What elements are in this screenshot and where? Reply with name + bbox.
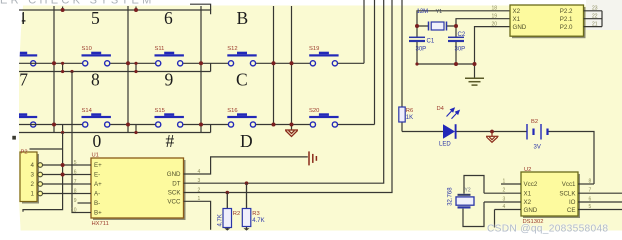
wire: P2 pin1 to A- [43,193,78,195]
svg-text:LED: LED [439,141,451,147]
svg-text:A-: A- [94,191,100,198]
svg-text:4.7K: 4.7K [252,218,264,224]
svg-text:30P: 30P [416,46,427,52]
svg-text:P2.0: P2.0 [560,24,573,31]
svg-text:Y1: Y1 [436,9,443,15]
svg-text:6: 6 [589,197,592,203]
svg-text:10: 10 [71,208,77,214]
ground arrow keypad (red) [285,130,298,137]
svg-text:8: 8 [91,70,100,90]
svg-text:4: 4 [31,162,35,169]
svg-text:X2: X2 [524,199,532,206]
switch S19 [309,46,339,66]
wire: U1 DT to riser [184,0,384,183]
svg-text:30P: 30P [455,46,466,52]
svg-text:8: 8 [74,189,77,195]
svg-text:#: # [166,131,175,151]
pin stubs U2 left [484,184,521,228]
svg-text:6: 6 [164,8,173,28]
wire: Y2 top to X1 [464,176,484,194]
ground arrow (battery rail) [486,132,499,143]
svg-text:0: 0 [93,131,102,151]
pin numbers U1 left [71,160,77,214]
svg-text:7: 7 [74,179,77,185]
svg-text:3V: 3V [534,145,541,151]
svg-text:19: 19 [491,13,497,19]
wire: row0 wire fragment [190,4,211,10]
svg-text:22: 22 [592,13,598,19]
wire: cap ground rail [417,63,475,65]
svg-text:E+: E+ [94,162,102,169]
resistor R2 [218,193,241,231]
svg-text:S20: S20 [309,108,319,114]
wire: column line 3 [200,6,202,133]
switch S10 [82,46,111,66]
svg-text:HX711: HX711 [92,221,109,227]
svg-text:Vcc1: Vcc1 [562,181,576,188]
svg-text:3: 3 [503,197,506,203]
capacitor C2 [448,32,466,52]
wire: row1 wire segments [19,62,364,64]
KEYPAD SECTION [19,0,375,133]
svg-text:GND: GND [513,24,527,31]
wire: column line 2 [127,6,129,133]
svg-text:X1: X1 [524,190,532,197]
svg-text:GND: GND [524,207,538,214]
node: crystal junctions [415,24,477,66]
svg-text:7: 7 [589,188,592,194]
svg-text:2: 2 [503,188,506,194]
resistor R6 [399,0,413,132]
svg-text:S10: S10 [82,46,92,52]
switch S15 [155,108,184,127]
svg-text:12M: 12M [417,9,429,15]
svg-text:1: 1 [31,191,35,198]
wire: bus C to connector P2 riser [23,133,63,212]
ground (sideways, red) [309,151,316,165]
svg-text:4: 4 [503,204,506,210]
pin numbers U2 right [589,179,592,211]
wire: row2 wire segments [19,124,375,126]
wire: P2 pin2 to A+ [43,183,78,185]
svg-text:CE: CE [567,207,576,214]
svg-text:8: 8 [589,179,592,185]
svg-text:S14: S14 [82,108,93,114]
wire: column line 4b to ground [291,6,293,130]
wire: crystal Y1 stubs [417,25,456,27]
svg-text:P2.2: P2.2 [560,8,573,15]
switch S20 [309,108,339,127]
svg-text:R6: R6 [406,108,413,114]
svg-text:B: B [237,8,249,28]
svg-text:9: 9 [165,70,174,90]
svg-text:C2: C2 [458,32,466,38]
switch S16 [227,108,256,127]
wire: row bus B [19,71,211,73]
wire: stub row0-busA x136 [135,7,137,11]
key label remnant row3 col1 [12,136,16,140]
wire: LED rail [402,132,594,185]
ground (3-bar) [465,78,484,85]
pin numbers MCU right [592,6,598,28]
svg-text:X1: X1 [513,16,521,23]
wire: S20 riser [374,0,376,125]
svg-text:B+: B+ [94,210,102,217]
svg-text:D4: D4 [437,106,445,112]
pin numbers U1 right [198,169,201,202]
svg-text:S15: S15 [155,108,165,114]
svg-text:1: 1 [503,179,506,185]
switch S14 [82,108,111,127]
svg-text:18: 18 [491,6,497,12]
svg-text:4.7K: 4.7K [218,214,224,226]
pin stubs MCU right [584,11,603,27]
svg-text:U2: U2 [524,167,531,173]
switch S13 row2 col1 (cut by margin) [8,113,37,127]
svg-text:S12: S12 [227,46,237,52]
svg-text:P2.1: P2.1 [560,16,573,23]
wire: S19 riser [363,0,365,63]
connector P2 [20,149,43,203]
svg-text:SCLK: SCLK [559,190,576,197]
switch S12 [227,46,256,66]
svg-text:X2: X2 [513,8,521,15]
svg-text:5: 5 [74,160,77,166]
switch S11 [155,46,184,66]
svg-text:DT: DT [172,180,180,187]
wire: branch at P2 label [30,148,63,150]
svg-text:S19: S19 [309,46,319,52]
svg-text:E-: E- [94,172,100,179]
wire: MCU GND to ground [475,27,511,78]
wire: row1 stubs to bus B [63,63,211,71]
IC U2 DS1302 [521,167,580,225]
svg-text:20: 20 [491,21,497,27]
svg-text:CSDN @qq_2083558048: CSDN @qq_2083558048 [487,224,608,235]
wire: column line 1 [53,6,55,133]
resistor R3 [242,183,264,230]
crystal Y2 [448,187,475,208]
wire: U1 SCK to riser [184,0,393,193]
svg-text:C: C [236,70,248,90]
svg-text:P2: P2 [21,149,28,155]
MCU U3 (cropped) [510,5,586,38]
svg-text:VCC: VCC [167,199,181,206]
node: SCK-R2 junction [226,191,230,195]
svg-text:C1: C1 [427,39,435,45]
wire: stub row0-busA x62.6 [62,7,64,11]
wire: column line 4a [273,6,275,125]
white left margin [0,0,24,238]
svg-text:2: 2 [31,181,35,188]
svg-text:5: 5 [589,204,592,210]
svg-text:U1: U1 [92,153,99,159]
svg-text:3: 3 [31,172,35,179]
pin numbers MCU left [491,6,497,28]
svg-text:23: 23 [592,6,598,12]
op-amp U1 HX711 [91,153,186,227]
svg-text:5: 5 [91,8,100,28]
pin stubs U2 right [578,184,622,210]
wire: bus B to HX711 B+ riser [72,72,78,213]
wire: Y2 bottom to X2 [463,202,484,227]
svg-text:D: D [240,131,253,151]
wire: row bus C [19,132,211,134]
svg-text:Y2: Y2 [465,187,471,193]
svg-text:S11: S11 [155,46,165,52]
LED D4 [437,106,460,148]
svg-text:32.768: 32.768 [448,187,454,206]
svg-text:R3: R3 [252,211,259,217]
svg-text:R2: R2 [233,211,240,217]
node: P2 riser junctions [61,163,65,177]
wire: U1 VCC down [184,201,211,230]
node: DT-R3 junction [245,181,249,185]
pin stubs U1 left [78,165,92,213]
battery B2 [527,119,548,151]
svg-text:9: 9 [74,198,77,204]
svg-text:7: 7 [19,70,28,90]
svg-text:21: 21 [592,21,598,27]
svg-text:SCK: SCK [168,190,182,197]
svg-text:1K: 1K [406,115,413,121]
wire: row bus A [19,10,211,14]
svg-text:S16: S16 [227,108,237,114]
wire: X1 net [456,19,510,64]
svg-text:Vcc2: Vcc2 [524,181,538,188]
wire: row2 stubs to bus C [63,125,211,133]
junction dots keypad [52,8,294,134]
svg-text:IO: IO [569,199,576,206]
crystal Y1 [417,9,447,31]
wire: P2 pin3 to E- [43,174,78,176]
svg-text:A+: A+ [94,181,102,188]
svg-text:B2: B2 [531,119,538,125]
wire: X2 net (left vertical + horizontal to MCU) [417,11,510,64]
svg-text:GND: GND [167,171,181,178]
wire: P2 pin4 to E+ [43,164,78,166]
svg-text:ER CHECK SYSTEM: ER CHECK SYSTEM [0,0,155,6]
capacitor C1 [409,37,435,52]
pin numbers U2 left [503,179,506,211]
node: LED-ground junction [490,130,494,134]
wire: U1 GND to side ground [184,157,308,174]
svg-text:B-: B- [94,200,100,207]
svg-text:6: 6 [74,170,77,176]
switch S9 row1 col1 (cut by margin) [8,52,37,66]
